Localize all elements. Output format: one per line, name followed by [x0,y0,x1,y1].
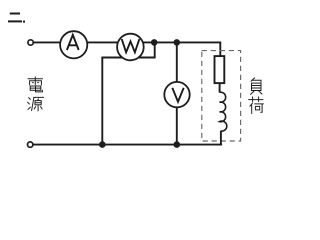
wire: wattmeter voltage coil down to bottom wire [101,58,103,145]
load dashed enclosure box [202,51,241,141]
wattmeter voltage-coil chord wire [101,57,154,59]
kanji 負 [251,78,262,95]
kanji 電 [28,77,43,92]
junction dot: bottom wire / wattmeter voltage coil [99,141,106,148]
inductor (load L) [220,92,227,131]
top wire: source terminal to ammeter [33,41,60,43]
kanji 源 [28,97,44,111]
wire: resistor to inductor stub [219,83,221,93]
top wire: ammeter to wattmeter [60,41,118,43]
wire: voltmeter bottom to bottom wire [176,107,178,145]
ammeter A [60,31,87,58]
junction dot: top wire / wattmeter voltage coil [151,39,158,46]
label 電源 (power source), hand-drawn kanji [28,77,44,111]
wattmeter W [117,34,144,61]
wire: junction down to voltmeter top [176,42,178,82]
label heading "二." [8,14,25,23]
label 負荷 (load), hand-drawn kanji [249,78,264,114]
wire: top junction down to wattmeter voltage coil [154,42,156,58]
kanji 荷 [249,97,264,114]
source terminal bottom (open circle) [28,142,33,147]
bottom wire: source terminal to load [33,144,222,146]
wire: load riser from top wire into resistor [219,42,221,57]
resistor (load R) [215,56,225,83]
top wire: wattmeter to load corner [118,41,221,43]
junction dot: top wire / voltmeter branch [174,39,181,46]
junction dot: bottom wire / voltmeter branch [174,141,181,148]
voltmeter V [164,82,189,107]
wire: inductor to bottom wire [220,131,222,146]
source terminal top (open circle) [28,40,33,45]
